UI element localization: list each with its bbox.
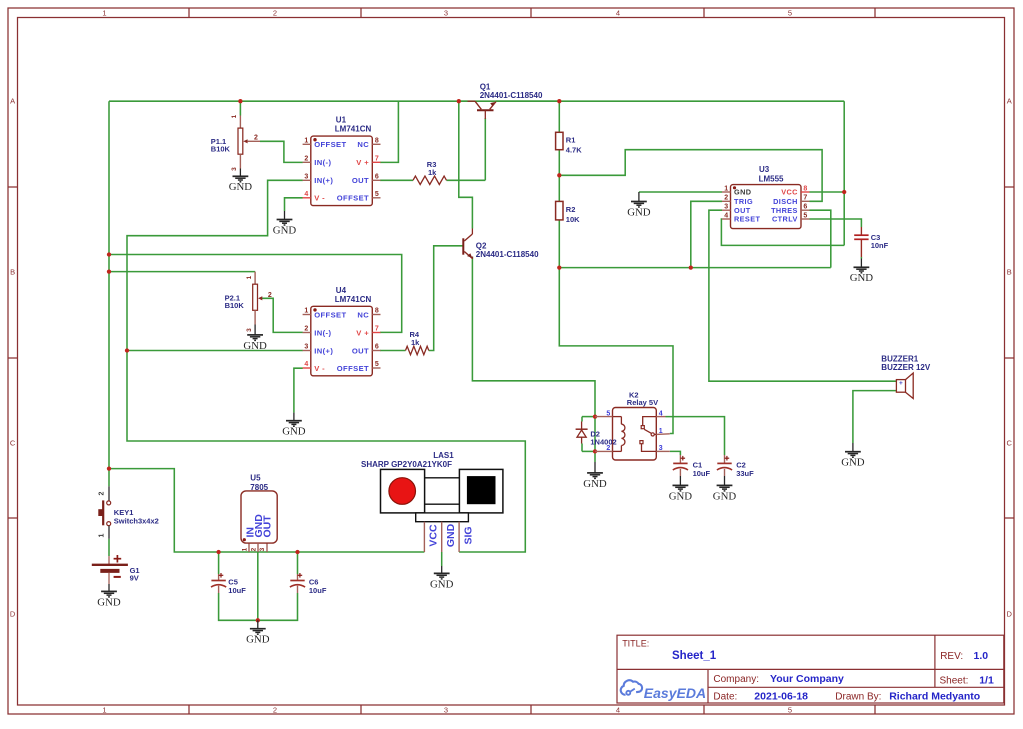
- svg-text:RESET: RESET: [734, 215, 760, 224]
- svg-text:GND: GND: [841, 457, 865, 469]
- svg-text:2: 2: [304, 326, 308, 333]
- svg-text:U3: U3: [759, 165, 770, 174]
- svg-text:10uF: 10uF: [693, 469, 711, 478]
- svg-text:1: 1: [724, 185, 728, 192]
- svg-text:7: 7: [803, 195, 807, 202]
- svg-text:A: A: [10, 97, 15, 106]
- svg-text:LM555: LM555: [759, 174, 784, 183]
- svg-text:6: 6: [375, 174, 379, 181]
- svg-text:B: B: [10, 268, 15, 277]
- svg-text:2N4401-C118540: 2N4401-C118540: [476, 250, 539, 259]
- svg-text:4: 4: [724, 212, 728, 219]
- svg-text:1N4002: 1N4002: [590, 437, 616, 446]
- svg-text:2021-06-18: 2021-06-18: [754, 690, 808, 702]
- svg-text:V +: V +: [356, 328, 369, 337]
- svg-text:GND: GND: [713, 490, 737, 502]
- svg-text:2N4401-C118540: 2N4401-C118540: [480, 91, 543, 100]
- svg-text:5: 5: [803, 212, 807, 219]
- svg-text:BUZZER1: BUZZER1: [881, 354, 918, 363]
- svg-text:NC: NC: [357, 140, 369, 149]
- svg-text:Date:: Date:: [713, 691, 737, 702]
- svg-text:5: 5: [788, 705, 792, 714]
- svg-text:D: D: [1006, 610, 1012, 619]
- svg-text:GND: GND: [627, 206, 651, 218]
- svg-text:R2: R2: [566, 205, 576, 214]
- svg-text:1: 1: [246, 275, 253, 279]
- svg-text:GND: GND: [669, 490, 693, 502]
- svg-text:U1: U1: [336, 116, 347, 125]
- svg-text:7: 7: [375, 156, 379, 163]
- svg-text:SIG: SIG: [463, 526, 475, 544]
- svg-text:V -: V -: [314, 364, 325, 373]
- svg-text:IN(-): IN(-): [314, 328, 331, 337]
- svg-text:4: 4: [616, 705, 620, 714]
- svg-text:GND: GND: [850, 272, 874, 284]
- svg-text:10K: 10K: [566, 215, 580, 224]
- svg-text:CTRLV: CTRLV: [772, 215, 798, 224]
- svg-text:10nF: 10nF: [871, 241, 889, 250]
- svg-text:OUT: OUT: [734, 206, 751, 215]
- svg-text:7: 7: [375, 326, 379, 333]
- svg-text:9V: 9V: [130, 573, 139, 582]
- svg-text:OUT: OUT: [352, 176, 369, 185]
- svg-text:OUT: OUT: [262, 515, 274, 538]
- svg-text:C: C: [10, 439, 16, 448]
- svg-text:3: 3: [231, 167, 238, 171]
- svg-text:OFFSET: OFFSET: [314, 310, 346, 319]
- svg-text:OFFSET: OFFSET: [314, 140, 346, 149]
- svg-text:1: 1: [102, 705, 106, 714]
- svg-text:3: 3: [259, 547, 266, 551]
- svg-text:4: 4: [304, 361, 308, 368]
- svg-text:R1: R1: [566, 136, 576, 145]
- svg-text:NC: NC: [357, 310, 369, 319]
- svg-text:GND: GND: [243, 340, 267, 352]
- svg-text:4.7K: 4.7K: [566, 146, 582, 155]
- svg-text:OFFSET: OFFSET: [337, 194, 369, 203]
- svg-text:Company:: Company:: [713, 674, 759, 685]
- svg-text:6: 6: [803, 204, 807, 211]
- svg-text:B: B: [1007, 268, 1012, 277]
- svg-text:1: 1: [659, 428, 663, 435]
- svg-text:2: 2: [273, 8, 277, 17]
- svg-text:2: 2: [724, 195, 728, 202]
- svg-text:V -: V -: [314, 194, 325, 203]
- svg-text:2: 2: [304, 156, 308, 163]
- svg-text:6: 6: [375, 344, 379, 351]
- svg-text:5: 5: [606, 410, 610, 417]
- svg-text:GND: GND: [282, 426, 306, 438]
- svg-text:REV:: REV:: [940, 651, 963, 662]
- svg-text:7805: 7805: [250, 483, 268, 492]
- svg-text:IN(+): IN(+): [314, 346, 333, 355]
- svg-text:2: 2: [99, 491, 106, 495]
- svg-text:3: 3: [444, 8, 448, 17]
- svg-text:BUZZER 12V: BUZZER 12V: [881, 363, 931, 372]
- svg-text:LAS1: LAS1: [433, 451, 454, 460]
- svg-text:5: 5: [375, 361, 379, 368]
- svg-text:GND: GND: [445, 523, 457, 547]
- svg-text:U4: U4: [336, 286, 347, 295]
- svg-text:OFFSET: OFFSET: [337, 364, 369, 373]
- svg-text:VCC: VCC: [428, 524, 440, 547]
- svg-text:C: C: [1006, 439, 1012, 448]
- svg-text:Sheet:: Sheet:: [940, 676, 969, 687]
- svg-text:D: D: [10, 610, 16, 619]
- svg-text:3: 3: [659, 445, 663, 452]
- svg-text:1k: 1k: [411, 338, 420, 347]
- svg-text:10uF: 10uF: [309, 586, 327, 595]
- svg-text:Switch3x4x2: Switch3x4x2: [114, 517, 159, 526]
- svg-text:Richard Medyanto: Richard Medyanto: [889, 690, 980, 702]
- svg-text:IN(+): IN(+): [314, 176, 333, 185]
- svg-text:SHARP GP2Y0A21YK0F: SHARP GP2Y0A21YK0F: [361, 460, 452, 469]
- svg-text:4: 4: [659, 410, 663, 417]
- svg-text:1: 1: [102, 8, 106, 17]
- svg-text:TITLE:: TITLE:: [622, 638, 649, 648]
- svg-text:1.0: 1.0: [974, 650, 989, 662]
- svg-text:2: 2: [268, 292, 272, 299]
- svg-text:+: +: [899, 380, 903, 387]
- svg-text:GND: GND: [734, 188, 751, 197]
- svg-text:GND: GND: [229, 181, 253, 193]
- svg-text:GND: GND: [97, 596, 121, 608]
- svg-text:3: 3: [444, 705, 448, 714]
- svg-text:10uF: 10uF: [228, 586, 246, 595]
- svg-text:A: A: [1007, 97, 1012, 106]
- svg-text:1: 1: [242, 547, 249, 551]
- svg-text:B10K: B10K: [225, 301, 245, 310]
- svg-text:2: 2: [273, 705, 277, 714]
- svg-text:2: 2: [254, 135, 258, 142]
- svg-text:V +: V +: [356, 158, 369, 167]
- svg-text:3: 3: [304, 174, 308, 181]
- svg-text:2: 2: [250, 547, 257, 551]
- svg-text:4: 4: [616, 8, 620, 17]
- svg-text:DISCH: DISCH: [773, 197, 798, 206]
- svg-text:IN(-): IN(-): [314, 158, 331, 167]
- svg-text:OUT: OUT: [352, 346, 369, 355]
- svg-text:5: 5: [375, 191, 379, 198]
- svg-text:Sheet_1: Sheet_1: [672, 650, 717, 662]
- svg-text:GND: GND: [246, 634, 270, 646]
- svg-text:U5: U5: [250, 474, 261, 483]
- svg-text:3: 3: [304, 344, 308, 351]
- svg-text:LM741CN: LM741CN: [335, 125, 372, 134]
- svg-text:Relay 5V: Relay 5V: [627, 398, 658, 407]
- svg-text:GND: GND: [430, 578, 454, 590]
- svg-text:GND: GND: [273, 224, 297, 236]
- svg-text:1: 1: [231, 114, 238, 118]
- svg-text:5: 5: [788, 8, 792, 17]
- svg-text:EasyEDA: EasyEDA: [644, 685, 706, 701]
- svg-text:B10K: B10K: [211, 145, 231, 154]
- svg-text:THRES: THRES: [771, 206, 798, 215]
- svg-text:33uF: 33uF: [736, 469, 754, 478]
- svg-text:LM741CN: LM741CN: [335, 295, 372, 304]
- svg-text:TRIG: TRIG: [734, 197, 753, 206]
- svg-text:8: 8: [375, 138, 379, 145]
- svg-text:1: 1: [99, 533, 106, 537]
- svg-text:1: 1: [304, 138, 308, 145]
- svg-text:3: 3: [724, 204, 728, 211]
- svg-text:4: 4: [304, 191, 308, 198]
- svg-text:GND: GND: [583, 478, 607, 490]
- svg-text:1/1: 1/1: [979, 675, 994, 687]
- svg-text:1k: 1k: [428, 168, 437, 177]
- svg-text:VCC: VCC: [781, 188, 798, 197]
- svg-text:8: 8: [375, 308, 379, 315]
- svg-text:8: 8: [803, 185, 807, 192]
- svg-text:Your Company: Your Company: [770, 673, 844, 685]
- svg-text:Drawn By:: Drawn By:: [835, 691, 881, 702]
- svg-text:3: 3: [246, 328, 253, 332]
- svg-text:1: 1: [304, 308, 308, 315]
